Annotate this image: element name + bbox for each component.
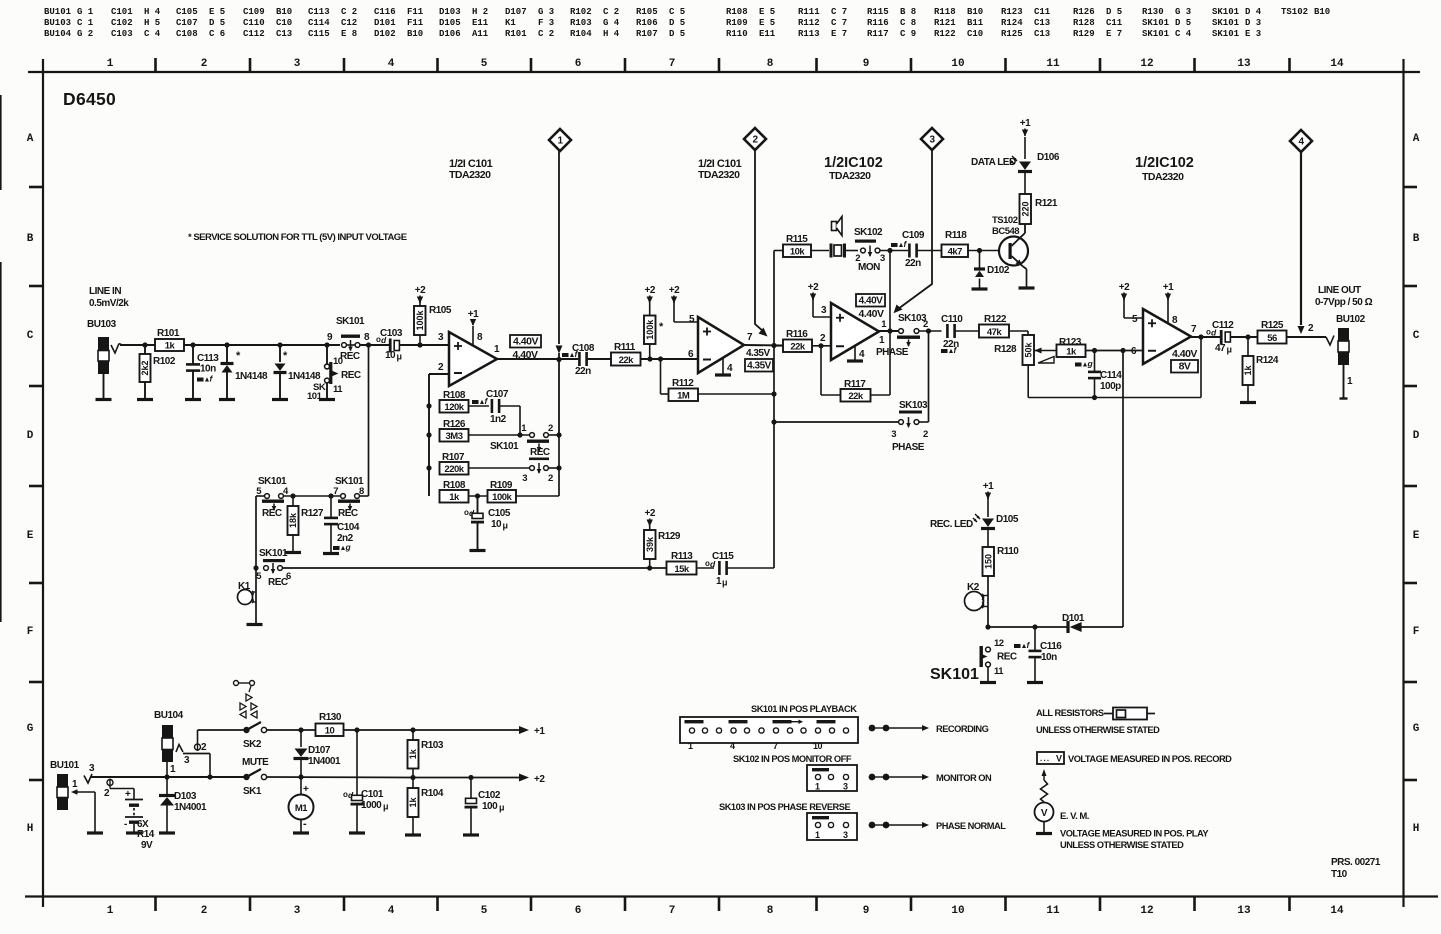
wire SK101-8 riser bbox=[368, 345, 370, 496]
off-page diamond 2 bbox=[744, 128, 768, 337]
svg-text:100p: 100p bbox=[1100, 381, 1121, 392]
svg-text:D 4: D 4 bbox=[1245, 7, 1262, 17]
svg-text:TS102: TS102 bbox=[1281, 7, 1308, 17]
svg-text:C 2: C 2 bbox=[603, 7, 619, 17]
svg-text:11: 11 bbox=[333, 384, 343, 395]
supply +1 D105 bbox=[983, 481, 994, 517]
svg-text:+1: +1 bbox=[534, 726, 545, 737]
svg-text:E 7: E 7 bbox=[1106, 29, 1122, 39]
supply +2 R129 bbox=[644, 508, 655, 530]
svg-text:C115: C115 bbox=[308, 29, 330, 39]
svg-text:MON: MON bbox=[858, 262, 880, 273]
svg-text:SK103: SK103 bbox=[899, 400, 928, 411]
svg-text:1k: 1k bbox=[1066, 347, 1077, 358]
title D6450 bbox=[63, 89, 116, 109]
switch SK101 pins 5-6 lower bbox=[253, 548, 667, 588]
svg-text:C 7: C 7 bbox=[831, 7, 847, 17]
legend SK101 playback title bbox=[751, 704, 857, 714]
svg-text:1: 1 bbox=[815, 830, 820, 840]
svg-text:1M: 1M bbox=[677, 391, 690, 402]
off-page diamond 3 bbox=[894, 128, 944, 313]
svg-text:8: 8 bbox=[767, 905, 774, 917]
svg-text:50k: 50k bbox=[1023, 342, 1033, 358]
svg-text:3M3: 3M3 bbox=[446, 431, 463, 442]
capacitor C101 bbox=[343, 730, 388, 832]
svg-text:4: 4 bbox=[388, 58, 395, 70]
switch SK103 pins 3-2 lower bbox=[774, 331, 929, 440]
svg-text:F 3: F 3 bbox=[538, 18, 554, 28]
svg-text:PHASE NORMAL: PHASE NORMAL bbox=[936, 821, 1006, 831]
supply +1 D106 bbox=[1020, 118, 1031, 137]
svg-text:C10: C10 bbox=[967, 29, 983, 39]
legend SK102 monitor off title bbox=[733, 754, 852, 764]
svg-text:100k: 100k bbox=[492, 492, 512, 503]
op-amp U1a IC101 bbox=[438, 332, 500, 386]
svg-text:120k: 120k bbox=[444, 402, 464, 413]
svg-text:E: E bbox=[1413, 530, 1420, 542]
wire op-amp U2b output bbox=[1191, 336, 1220, 338]
resistor R126 3M3 bbox=[440, 419, 530, 442]
tape transport symbol bbox=[234, 681, 258, 719]
supply +1 op-amp U1a pin 8 bbox=[468, 309, 479, 346]
svg-text:R110: R110 bbox=[997, 546, 1019, 557]
svg-text:D101: D101 bbox=[374, 18, 396, 28]
ground D-1N4148 down bbox=[272, 398, 288, 401]
wire SK102 to op3 output bbox=[887, 251, 892, 396]
legend SK103 box bbox=[807, 813, 857, 840]
svg-text:VOLTAGE MEASURED IN POS. RECOR: VOLTAGE MEASURED IN POS. RECORD bbox=[1068, 754, 1232, 764]
svg-text:2: 2 bbox=[201, 905, 208, 917]
svg-text:R130: R130 bbox=[1142, 7, 1164, 17]
svg-text:G 3: G 3 bbox=[538, 7, 554, 17]
label 1/2IC102 first bbox=[824, 155, 883, 182]
svg-text:BU104: BU104 bbox=[154, 710, 184, 721]
EVM symbol bbox=[1035, 769, 1054, 832]
wire feedback op-amp U2b bbox=[1028, 334, 1203, 400]
svg-text:REC: REC bbox=[338, 508, 358, 519]
svg-text:C 9: C 9 bbox=[900, 29, 916, 39]
pin 2 BU104 bbox=[195, 730, 247, 753]
svg-text:100k: 100k bbox=[645, 319, 655, 340]
svg-text:R118: R118 bbox=[945, 230, 967, 241]
svg-text:G: G bbox=[1413, 723, 1420, 735]
svg-text:3: 3 bbox=[522, 473, 527, 484]
supply +2 op-amp U2b pin5 bbox=[1119, 282, 1143, 318]
svg-text:1N4148: 1N4148 bbox=[288, 371, 321, 382]
capacitor C116 bbox=[1029, 627, 1063, 681]
svg-text:22k: 22k bbox=[619, 355, 635, 366]
supply rail +2 arrow bbox=[519, 774, 545, 786]
svg-text:C13: C13 bbox=[1034, 18, 1050, 28]
svg-text:E: E bbox=[27, 530, 34, 542]
svg-text:SK101: SK101 bbox=[336, 316, 365, 327]
pin 1 BU101 bbox=[71, 779, 95, 832]
svg-text:K1: K1 bbox=[505, 18, 516, 28]
svg-text:A11: A11 bbox=[472, 29, 489, 39]
label REC. LED bbox=[930, 519, 973, 530]
svg-text:+1: +1 bbox=[1020, 118, 1031, 129]
svg-text:B10: B10 bbox=[967, 7, 983, 17]
wire +2 rail bbox=[410, 775, 519, 780]
capacitor C105 bbox=[464, 496, 511, 549]
record head K1 bbox=[238, 568, 257, 623]
svg-text:2: 2 bbox=[548, 423, 553, 434]
scan edge artifact (decorative) bbox=[0, 95, 2, 622]
wire REC LED node bbox=[985, 624, 1067, 629]
svg-text:PRS. 00271: PRS. 00271 bbox=[1331, 857, 1381, 868]
svg-text:H 4: H 4 bbox=[144, 7, 161, 17]
svg-text:4.35V: 4.35V bbox=[747, 361, 771, 372]
svg-text:SK101: SK101 bbox=[1212, 29, 1240, 39]
svg-text:C 6: C 6 bbox=[209, 29, 225, 39]
ground R127 bbox=[285, 551, 301, 554]
svg-text:11: 11 bbox=[1046, 905, 1060, 917]
doc number bbox=[1331, 857, 1381, 880]
svg-text:C10: C10 bbox=[276, 18, 292, 28]
measure point f C110 bbox=[941, 345, 958, 355]
svg-text:4.40V: 4.40V bbox=[859, 308, 884, 320]
svg-text:R130: R130 bbox=[319, 712, 342, 723]
ground battery bbox=[126, 831, 142, 834]
svg-text:SK101 IN POS PLAYBACK: SK101 IN POS PLAYBACK bbox=[751, 704, 857, 714]
svg-text:6: 6 bbox=[575, 905, 582, 917]
resistor R116 bbox=[774, 329, 831, 353]
resistor R110 bbox=[983, 546, 1020, 627]
svg-text:H: H bbox=[1413, 823, 1420, 835]
resistor R123 bbox=[1038, 337, 1144, 358]
svg-text:R112: R112 bbox=[798, 18, 820, 28]
svg-text:C 4: C 4 bbox=[144, 29, 161, 39]
svg-text:BU102: BU102 bbox=[1336, 314, 1366, 325]
svg-text:R110: R110 bbox=[726, 29, 748, 39]
svg-text:UNLESS OTHERWISE STATED: UNLESS OTHERWISE STATED bbox=[1060, 840, 1184, 850]
svg-text:1/2IC102: 1/2IC102 bbox=[1135, 155, 1194, 171]
svg-text:B10: B10 bbox=[407, 29, 423, 39]
svg-text:C110: C110 bbox=[243, 18, 265, 28]
svg-text:B 8: B 8 bbox=[900, 7, 916, 17]
supply +2 R106 bbox=[644, 285, 655, 316]
switch SK101 pins 7-8 bbox=[333, 476, 368, 519]
wire feedback right bus bbox=[556, 432, 561, 496]
connector BU104 bbox=[154, 710, 184, 777]
svg-text:R117: R117 bbox=[867, 29, 889, 39]
svg-text:E. V. M.: E. V. M. bbox=[1060, 811, 1089, 822]
svg-text:E11: E11 bbox=[472, 18, 489, 28]
svg-text:C116: C116 bbox=[374, 7, 396, 17]
svg-text:R121: R121 bbox=[934, 18, 956, 28]
wire op-amp U1b output bbox=[744, 343, 783, 348]
legend SK103 phase reverse title bbox=[719, 802, 850, 812]
resistor R107 220k bbox=[440, 452, 530, 475]
svg-text:TDA2320: TDA2320 bbox=[449, 169, 491, 181]
svg-text:R118: R118 bbox=[934, 7, 956, 17]
svg-text:R127: R127 bbox=[301, 508, 324, 519]
svg-text:1k: 1k bbox=[1243, 365, 1253, 376]
svg-text:-: - bbox=[124, 819, 127, 830]
svg-text:B: B bbox=[27, 233, 34, 245]
supply +2 R105 bbox=[415, 285, 426, 306]
wire main input line bbox=[184, 342, 340, 347]
op-amp U2b IC102 bbox=[1131, 309, 1197, 364]
led D106 DATA LED bbox=[971, 137, 1060, 194]
svg-text:BC548: BC548 bbox=[992, 226, 1019, 237]
svg-text:SK101: SK101 bbox=[1142, 18, 1170, 28]
svg-text:C: C bbox=[1413, 330, 1420, 342]
label EVM bbox=[1060, 811, 1089, 822]
ground EVM bbox=[1036, 832, 1052, 835]
jack contact BU103 bbox=[111, 344, 122, 354]
svg-text:C109: C109 bbox=[243, 7, 265, 17]
wire op-amp U1a output bbox=[497, 357, 578, 362]
voltage label 4.35V op2 bbox=[745, 348, 773, 372]
svg-text:C107: C107 bbox=[176, 18, 198, 28]
svg-text:7: 7 bbox=[669, 58, 676, 70]
svg-text:C13: C13 bbox=[276, 29, 292, 39]
svg-text:μ: μ bbox=[383, 802, 388, 812]
svg-text:3: 3 bbox=[891, 429, 896, 440]
svg-text:1: 1 bbox=[815, 782, 820, 792]
svg-text:10n: 10n bbox=[1041, 652, 1057, 663]
voltage label 4.40V op1 bbox=[510, 335, 541, 361]
svg-text:M1: M1 bbox=[295, 803, 308, 814]
svg-text:TDA2320: TDA2320 bbox=[698, 169, 740, 181]
supply rail +1 arrow bbox=[519, 726, 545, 737]
svg-text:H 5: H 5 bbox=[144, 18, 160, 28]
svg-text:C 4: C 4 bbox=[1175, 29, 1192, 39]
label SK 101 vertical switch bbox=[307, 382, 326, 402]
svg-text:LINE OUT: LINE OUT bbox=[1318, 285, 1361, 296]
svg-text:μ: μ bbox=[722, 578, 727, 588]
svg-text:R121: R121 bbox=[1035, 198, 1058, 209]
svg-text:2: 2 bbox=[923, 319, 928, 330]
svg-text:μ: μ bbox=[499, 803, 504, 813]
svg-text:R107: R107 bbox=[636, 29, 658, 39]
svg-text:C 2: C 2 bbox=[538, 29, 554, 39]
svg-text:A: A bbox=[27, 133, 34, 145]
svg-text:D103: D103 bbox=[439, 7, 461, 17]
svg-text:D: D bbox=[1413, 430, 1420, 442]
svg-text:8: 8 bbox=[767, 58, 774, 70]
svg-text:V: V bbox=[1041, 808, 1048, 819]
note: service solution for TTL input voltage bbox=[188, 232, 407, 243]
svg-text:47k: 47k bbox=[987, 327, 1003, 338]
svg-text:C114: C114 bbox=[1100, 370, 1122, 381]
diode D107 bbox=[294, 730, 341, 777]
svg-text:R116: R116 bbox=[786, 329, 808, 340]
svg-text:TS102: TS102 bbox=[992, 215, 1018, 226]
ground C101 bbox=[349, 831, 365, 834]
svg-text:12: 12 bbox=[994, 638, 1004, 649]
svg-text:D102: D102 bbox=[374, 29, 396, 39]
resistor R112 bbox=[661, 359, 775, 402]
svg-text:22n: 22n bbox=[575, 366, 591, 377]
svg-text:10k: 10k bbox=[790, 247, 806, 258]
capacitor C108 bbox=[572, 343, 612, 377]
diode D103 bbox=[159, 777, 207, 832]
svg-text:R128: R128 bbox=[994, 344, 1017, 355]
svg-text:R102: R102 bbox=[153, 356, 176, 367]
motor M1 bbox=[289, 777, 314, 832]
ground D102 bbox=[972, 287, 988, 290]
svg-text:150: 150 bbox=[983, 554, 993, 569]
measure point f C116 bbox=[1014, 640, 1031, 650]
svg-text:D6450: D6450 bbox=[63, 89, 116, 109]
svg-text:1N4001: 1N4001 bbox=[174, 802, 207, 813]
capacitor C113 bbox=[186, 345, 219, 398]
svg-text:1: 1 bbox=[107, 905, 114, 917]
svg-text:R125: R125 bbox=[1001, 29, 1023, 39]
svg-text:A: A bbox=[1413, 133, 1420, 145]
svg-text:56: 56 bbox=[1267, 333, 1277, 344]
svg-text:* SERVICE SOLUTION FOR TTL: * SERVICE SOLUTION FOR TTL (5V) INPUT VO… bbox=[188, 232, 407, 243]
svg-text:C107: C107 bbox=[486, 389, 509, 400]
measure point f C109 bbox=[891, 239, 908, 249]
svg-text:D106: D106 bbox=[1037, 152, 1060, 163]
svg-text:100k: 100k bbox=[415, 309, 425, 330]
svg-text:PHASE: PHASE bbox=[892, 442, 925, 453]
svg-text:1k: 1k bbox=[449, 492, 460, 503]
svg-text:BU103: BU103 bbox=[87, 319, 117, 330]
svg-text:C11: C11 bbox=[1106, 18, 1123, 28]
svg-text:1N4001: 1N4001 bbox=[308, 756, 341, 767]
svg-text:R115: R115 bbox=[867, 7, 889, 17]
svg-text:E 7: E 7 bbox=[831, 29, 847, 39]
svg-text:1k: 1k bbox=[408, 797, 418, 808]
svg-text:H 4: H 4 bbox=[603, 29, 620, 39]
diode D-1N4148 down bbox=[274, 345, 321, 398]
svg-text:R112: R112 bbox=[672, 378, 694, 389]
op-amp U1b IC101 bbox=[688, 314, 753, 373]
capacitor C103 bbox=[376, 328, 449, 362]
svg-text:REC: REC bbox=[997, 652, 1017, 663]
svg-text:. . .: . . . bbox=[1040, 754, 1049, 763]
label PHASE lower bbox=[892, 442, 925, 453]
svg-text:13: 13 bbox=[1237, 905, 1251, 917]
svg-text:7: 7 bbox=[669, 905, 676, 917]
svg-text:G: G bbox=[27, 723, 34, 735]
resistor R113 bbox=[667, 551, 715, 575]
resistor R101 bbox=[155, 328, 184, 352]
svg-text:REC: REC bbox=[341, 370, 361, 381]
svg-text:10n: 10n bbox=[200, 364, 216, 375]
svg-text:G 2: G 2 bbox=[77, 29, 93, 39]
svg-text:22n: 22n bbox=[943, 339, 959, 350]
svg-text:+2: +2 bbox=[415, 285, 426, 296]
pin 2 BU101 battery tap bbox=[104, 779, 134, 800]
svg-text:3: 3 bbox=[843, 830, 848, 840]
resistor R104 bbox=[408, 778, 444, 834]
svg-text:BU104: BU104 bbox=[44, 29, 72, 39]
svg-text:C12: C12 bbox=[341, 18, 357, 28]
svg-text:+: + bbox=[125, 789, 131, 800]
svg-text:C113: C113 bbox=[197, 353, 219, 364]
capacitor C114 bbox=[1088, 351, 1122, 398]
capacitor C102 bbox=[465, 778, 505, 834]
pin label 2 BU102 bbox=[1308, 323, 1314, 334]
svg-text:R125: R125 bbox=[1261, 320, 1284, 331]
measure point f C107 bbox=[472, 396, 489, 406]
svg-text:R111: R111 bbox=[614, 342, 636, 353]
label LINE OUT bbox=[1315, 285, 1373, 308]
svg-text:47: 47 bbox=[1215, 343, 1226, 354]
svg-text:V: V bbox=[1056, 754, 1062, 764]
svg-text:7: 7 bbox=[333, 486, 338, 497]
svg-text:B11: B11 bbox=[967, 18, 984, 28]
svg-text:TDA2320: TDA2320 bbox=[1142, 171, 1184, 183]
svg-text:C103: C103 bbox=[111, 29, 133, 39]
diode D-1N4148 up bbox=[221, 345, 268, 398]
svg-text:39k: 39k bbox=[645, 536, 655, 552]
svg-text:R126: R126 bbox=[1073, 7, 1095, 17]
svg-text:C101: C101 bbox=[361, 789, 384, 800]
note voltage play bbox=[1060, 829, 1209, 851]
svg-text:1N4148: 1N4148 bbox=[235, 371, 268, 382]
svg-text:R103: R103 bbox=[570, 18, 592, 28]
label 1/2IC102 second bbox=[1135, 155, 1194, 183]
svg-text:2: 2 bbox=[548, 473, 553, 484]
svg-text:R129: R129 bbox=[1073, 29, 1095, 39]
ground C104 bbox=[323, 552, 339, 555]
capacitor C107 bbox=[486, 389, 520, 435]
svg-text:RECORDING: RECORDING bbox=[936, 724, 989, 734]
measure point g C114 bbox=[1075, 359, 1094, 369]
svg-text:MUTE: MUTE bbox=[242, 757, 269, 768]
svg-text:C13: C13 bbox=[1034, 29, 1050, 39]
svg-text:11: 11 bbox=[994, 666, 1004, 677]
svg-text:E 8: E 8 bbox=[341, 29, 357, 39]
switch SK101 pins 12-11 bbox=[980, 638, 1017, 681]
label SK101 feedback switch bbox=[490, 441, 519, 452]
svg-text:C112: C112 bbox=[243, 29, 265, 39]
svg-text:B10: B10 bbox=[276, 7, 292, 17]
svg-text:R116: R116 bbox=[867, 18, 889, 28]
svg-text:9V: 9V bbox=[141, 840, 153, 851]
wire op-amp U1a inverting input to feedback bus bbox=[426, 374, 449, 496]
wire battery rail bbox=[91, 774, 247, 779]
svg-text:BU101: BU101 bbox=[50, 760, 80, 771]
svg-text:2: 2 bbox=[923, 429, 928, 440]
label MUTE bbox=[242, 757, 269, 768]
svg-text:E 5: E 5 bbox=[209, 7, 225, 17]
svg-text:G 4: G 4 bbox=[603, 18, 620, 28]
svg-text:REC: REC bbox=[262, 508, 282, 519]
svg-text:R102: R102 bbox=[570, 7, 592, 17]
wire bus to D101 bbox=[1122, 351, 1124, 628]
svg-text:10: 10 bbox=[491, 519, 502, 530]
ground D-1N4148 up bbox=[219, 398, 235, 401]
svg-text:10: 10 bbox=[951, 58, 964, 70]
svg-text:TDA2320: TDA2320 bbox=[829, 170, 871, 182]
svg-text:6: 6 bbox=[575, 58, 582, 70]
svg-text:R106: R106 bbox=[636, 18, 658, 28]
svg-text:R101: R101 bbox=[157, 328, 180, 339]
svg-text:4.40V: 4.40V bbox=[859, 296, 883, 307]
svg-text:D 5: D 5 bbox=[1106, 7, 1122, 17]
measure point g C104 bbox=[333, 542, 352, 552]
off-page diamond 4 bbox=[1290, 130, 1312, 334]
resistor R115 bbox=[774, 234, 829, 258]
off-page diamond 1 bbox=[549, 129, 571, 435]
svg-text:14: 14 bbox=[1330, 905, 1344, 917]
resistor R117 bbox=[821, 346, 890, 402]
ground C113 bbox=[185, 398, 201, 401]
svg-text:B10: B10 bbox=[1314, 7, 1330, 17]
ground op-amp U2a pin4 bbox=[847, 346, 865, 363]
diode D102 bbox=[974, 251, 1010, 289]
svg-text:F11: F11 bbox=[407, 18, 424, 28]
svg-text:F: F bbox=[1413, 626, 1420, 638]
resistor R105 bbox=[414, 305, 452, 345]
